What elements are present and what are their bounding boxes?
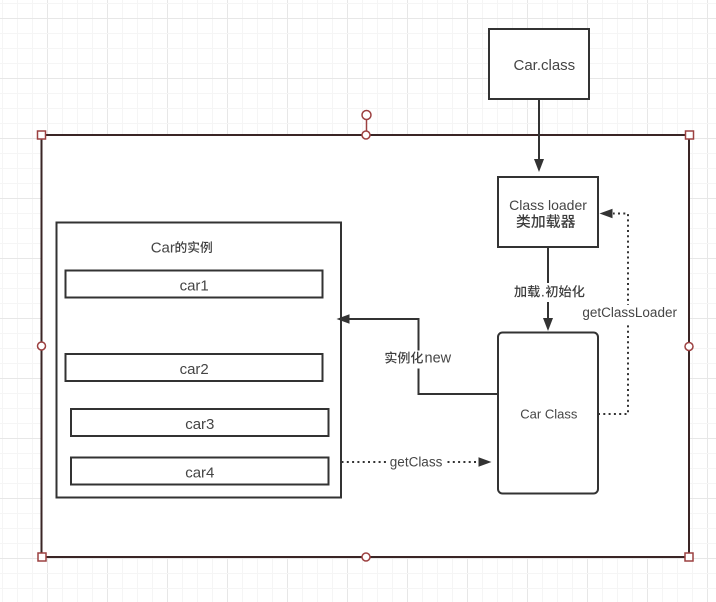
box Class loader — [498, 177, 598, 247]
svg-text:getClassLoader: getClassLoader — [582, 305, 677, 320]
selection handle left-mid — [38, 342, 46, 350]
label CJK class-loader — [516, 214, 575, 228]
label instantiate-new background — [382, 351, 457, 369]
svg-text:car3: car3 — [185, 416, 214, 433]
selection rotation handle stem — [366, 120, 368, 132]
wire getClass dotted — [342, 461, 478, 463]
selected container rectangle — [42, 135, 690, 557]
wire getClassLoader dotted — [598, 214, 628, 415]
selection rotation handle — [362, 111, 371, 120]
box car2 — [66, 354, 323, 381]
arrowhead into Car Class top — [543, 318, 553, 331]
box Car.class — [489, 29, 589, 99]
selection handle top-left — [38, 131, 46, 139]
svg-text:car4: car4 — [185, 464, 214, 481]
wire Class loader to Car Class — [547, 247, 549, 319]
wire Car Class to instances (new) — [349, 319, 498, 394]
selection handle bottom-right — [685, 553, 693, 561]
arrowhead getClass — [479, 457, 492, 467]
selection handle top-mid — [362, 131, 370, 139]
box car3 — [71, 409, 329, 436]
arrowhead getClassLoader — [600, 209, 613, 219]
svg-text:car1: car1 — [180, 277, 209, 294]
arrowhead into Class loader top — [534, 159, 544, 172]
svg-text:new: new — [425, 351, 452, 367]
label load-init CJK — [514, 285, 540, 297]
svg-text:.: . — [541, 283, 545, 300]
label load-init background — [511, 283, 589, 302]
box car4 — [71, 458, 329, 485]
svg-text:car2: car2 — [180, 361, 209, 378]
label instantiate-new — [385, 351, 423, 363]
box Car Class — [498, 333, 598, 494]
selection handle bottom-left — [38, 553, 46, 561]
selection handle bottom-mid — [362, 553, 370, 561]
svg-text:Class loader: Class loader — [509, 197, 587, 213]
label getClass background — [388, 453, 445, 471]
selection handle top-right — [686, 131, 694, 139]
svg-text:Car.class: Car.class — [514, 57, 576, 74]
wire Car.class to Class loader — [538, 99, 540, 160]
box car1 — [66, 271, 323, 298]
box Car instances container — [57, 223, 342, 498]
selection handle right-mid — [685, 343, 693, 351]
svg-text:getClass: getClass — [390, 455, 443, 470]
svg-text:Car Class: Car Class — [520, 407, 578, 422]
arrowhead into instances box — [337, 314, 350, 324]
label getClassLoader background — [580, 305, 679, 324]
svg-text:Car: Car — [151, 239, 175, 256]
